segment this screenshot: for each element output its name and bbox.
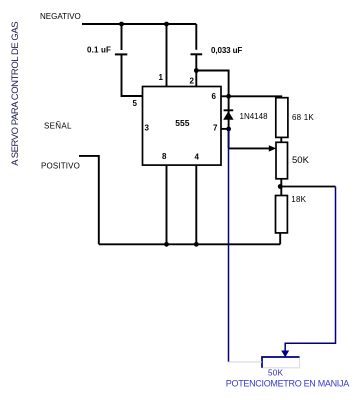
node dot pin7 — [226, 126, 231, 131]
wire R2 to R3 stub — [280, 179, 282, 196]
wire pin4 drop — [195, 165, 197, 244]
svg-text:POSITIVO: POSITIVO — [41, 161, 80, 170]
IC U1 555 timer box — [143, 87, 222, 166]
wire navy right column down — [285, 187, 335, 352]
wire junction to right column — [280, 186, 335, 188]
wire cap C2 top lead — [195, 24, 197, 50]
wire pin7 down to wiper line — [228, 129, 230, 149]
wire diode branch pin6 to pin7 — [228, 96, 230, 129]
node dot pin2 branch — [194, 68, 199, 73]
wire cap C1 top lead — [121, 24, 123, 50]
svg-text:50K: 50K — [268, 369, 284, 378]
wire pin7 stub — [221, 128, 229, 130]
capacitor C1 0.1uF — [115, 53, 127, 55]
node dot bottom rail pin8 — [164, 242, 169, 247]
wire pot left terminal (faint) — [228, 361, 262, 363]
wire cap C2 bottom lead to pin 2 — [195, 54, 197, 86]
node dot pin6 — [226, 94, 231, 99]
resistor R3 18K — [276, 196, 288, 233]
wire R1 to R2 stub — [280, 137, 282, 142]
diode D1 1N4148 — [223, 110, 233, 120]
wire pin1 drop — [166, 24, 168, 87]
wire negative rail — [82, 23, 196, 25]
wire pin6 to resistor R1 — [229, 96, 282, 97]
wire navy pot feed left — [228, 131, 230, 363]
node dot bottom rail pin4 — [194, 242, 199, 247]
node dot rail-C1 — [119, 22, 124, 27]
wire pin8 drop — [166, 165, 168, 244]
wire R3 bottom riser — [279, 233, 281, 244]
svg-text:0.1 uF: 0.1 uF — [87, 45, 111, 54]
node dot rail-pin1 — [164, 22, 169, 27]
svg-text:555: 555 — [175, 118, 189, 128]
wire wiper arrow line to 50K — [229, 147, 270, 149]
svg-text:1N4148: 1N4148 — [240, 112, 269, 121]
wiper arrowhead down onto pot — [281, 351, 289, 358]
svg-text:3: 3 — [145, 124, 150, 133]
wire pin6 stub — [221, 95, 229, 97]
wire bottom positive rail — [99, 243, 280, 245]
svg-text:5: 5 — [133, 99, 138, 108]
svg-text:50K: 50K — [292, 155, 310, 166]
resistor R1 68 1K — [276, 98, 288, 138]
svg-text:8: 8 — [162, 152, 167, 161]
wire node2 to pin6 column — [196, 71, 228, 97]
svg-text:1: 1 — [159, 73, 164, 82]
svg-text:4: 4 — [195, 153, 200, 162]
svg-text:68 1K: 68 1K — [292, 113, 314, 122]
svg-text:0,033 uF: 0,033 uF — [211, 46, 242, 55]
capacitor C2 0.033uF — [191, 53, 203, 55]
svg-text:A SERVO PARA CONTROL DE GAS: A SERVO PARA CONTROL DE GAS — [10, 22, 21, 166]
svg-text:NEGATIVO: NEGATIVO — [40, 12, 81, 21]
svg-text:POTENCIOMETRO EN MANIJA: POTENCIOMETRO EN MANIJA — [226, 379, 349, 389]
svg-text:7: 7 — [213, 124, 218, 133]
wire cap C1 bottom lead to pin 5 — [122, 54, 143, 96]
svg-text:18K: 18K — [291, 195, 306, 204]
svg-text:6: 6 — [212, 92, 217, 101]
svg-text:2: 2 — [190, 76, 195, 85]
resistor R2 50K trimmer — [276, 142, 288, 179]
potentiometer body 50K — [262, 357, 300, 368]
node dot R2-R3 junction — [278, 184, 283, 189]
wire positivo lead — [79, 156, 99, 244]
svg-text:SEÑAL: SEÑAL — [44, 122, 72, 131]
wiper arrowhead into 50K — [269, 145, 277, 151]
